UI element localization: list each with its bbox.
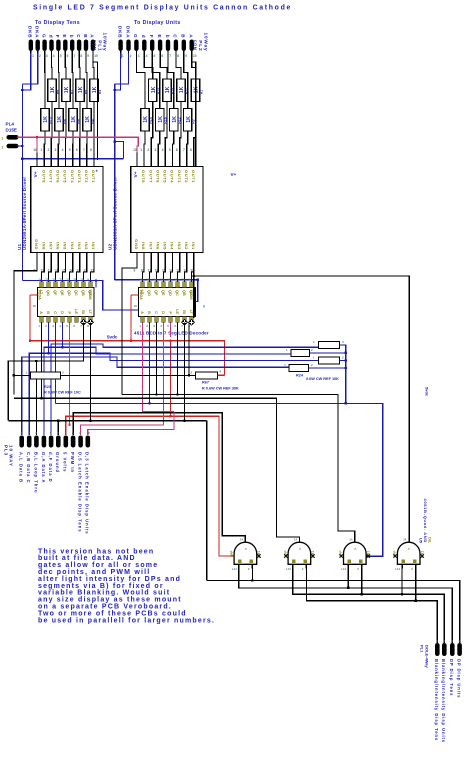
svg-text:C: C <box>76 34 81 38</box>
resistor R2 1K <box>183 109 191 132</box>
svg-text:IN7: IN7 <box>148 242 153 250</box>
wire U2 out to U4 <box>150 263 152 282</box>
svg-text:DPP: DPP <box>230 550 234 557</box>
U2 bottom pin 11 <box>193 253 195 263</box>
svg-text:QG: QG <box>46 290 50 296</box>
resistor R1 1K <box>191 79 199 102</box>
svg-text:7: 7 <box>183 148 185 152</box>
svg-text:QD: QD <box>67 290 71 296</box>
svg-text:IN5: IN5 <box>63 242 68 250</box>
svg-text:11: 11 <box>73 278 77 282</box>
wire U2 out to U4 <box>157 263 159 282</box>
svg-text:B,L Loop Thru: B,L Loop Thru <box>33 452 38 494</box>
U4 pad top 12 <box>162 282 165 288</box>
svg-text:V+: V+ <box>33 171 39 177</box>
blue bus left <box>21 84 23 281</box>
svg-text:DP Disp Tens: DP Disp Tens <box>449 659 454 696</box>
blue wire to U4 region <box>115 279 198 281</box>
U3 pad top 10 <box>47 282 50 288</box>
svg-text:OUT2: OUT2 <box>184 170 189 183</box>
svg-text:d,F Data D: d,F Data D <box>48 452 53 483</box>
svg-text:GND: GND <box>34 239 39 250</box>
svg-text:QC: QC <box>74 290 78 296</box>
pink wire U4 pin5 <box>170 322 172 337</box>
resistor R4 1K <box>83 109 91 132</box>
wire resistor to driver pin <box>186 131 189 153</box>
U1 bottom pin 18 <box>43 253 45 263</box>
black wire U3 pin8 down <box>90 322 92 420</box>
svg-text:13: 13 <box>59 278 63 282</box>
svg-text:F: F <box>55 35 60 39</box>
svg-text:R67: R67 <box>202 381 209 385</box>
U1 bottom pin 14 <box>72 253 74 263</box>
svg-text:OUT7: OUT7 <box>48 170 53 183</box>
svg-text:L14: L14 <box>232 567 237 571</box>
op-amp-driver U1 box <box>31 167 103 253</box>
blue rail y158.6 <box>22 158 123 160</box>
bus wire C y594.3 <box>293 568 445 643</box>
svg-text:15: 15 <box>45 278 49 282</box>
wire pin to resistor <box>152 59 160 109</box>
black wire M2a y394.5 to gate3 <box>122 395 355 542</box>
svg-text:7: 7 <box>83 148 85 152</box>
svg-text:B: B <box>83 34 88 38</box>
svg-text:D,3 Latch Enable Disp Units: D,3 Latch Enable Disp Units <box>85 452 90 535</box>
resistor R16 1K <box>156 109 164 132</box>
svg-text:3: 3 <box>46 54 48 58</box>
svg-text:4: 4 <box>62 148 64 152</box>
U2 top pin 10 <box>136 153 138 167</box>
pink wire PL3 pin10 <box>88 412 174 436</box>
svg-text:1: 1 <box>140 148 142 152</box>
svg-text:A: A <box>39 311 43 314</box>
U2 bottom pin 17 <box>150 253 152 263</box>
U1 bottom pin 13 <box>79 253 81 263</box>
svg-text:DKB: DKB <box>28 26 33 38</box>
svg-text:be used in parallell for large: be used in parallell for larger numbers. <box>38 617 215 624</box>
wire COM connector2 down <box>192 53 196 167</box>
AND gate U5D <box>397 542 420 564</box>
svg-text:Blanking/Intensity Disp Tens: Blanking/Intensity Disp Tens <box>434 659 439 741</box>
wire U1 out to U3 <box>63 263 66 282</box>
pink V+ rail <box>17 137 138 152</box>
wire U3 pin3 blue to M4 <box>55 322 57 403</box>
wire pin to resistor <box>86 59 87 109</box>
wire resistor to driver pin <box>79 101 81 153</box>
AND gate U5B <box>288 542 311 564</box>
U1 top pin 4 <box>64 153 66 167</box>
U1 top pin 6 <box>79 153 81 167</box>
wire U1 out to U3 <box>77 263 80 282</box>
wire DP pins connector1 to blue bus <box>22 53 30 90</box>
svg-text:A: A <box>90 34 95 38</box>
wire resistor to driver pin <box>194 101 196 153</box>
svg-text:OUT6: OUT6 <box>155 170 160 183</box>
wire U2 out to U4 <box>164 263 166 282</box>
svg-text:16: 16 <box>139 278 143 282</box>
svg-text:PL4: PL4 <box>6 122 15 127</box>
U2 top pin 1 <box>143 153 145 167</box>
svg-text:4: 4 <box>162 148 164 152</box>
svg-text:VDDB: VDDB <box>88 290 92 301</box>
svg-text:b: b <box>165 35 170 39</box>
svg-text:R1: R1 <box>199 90 203 95</box>
U1 bottom pin 16 <box>57 253 59 263</box>
wire DP pins connector2 to blue bus <box>115 53 121 90</box>
U3 pad top 14 <box>75 282 78 288</box>
U1 bottom pin 17 <box>50 253 52 263</box>
svg-text:QB: QB <box>81 290 85 296</box>
U3 pad top 11 <box>54 282 57 288</box>
U3 pad bottom 5 <box>68 317 71 323</box>
svg-text:2: 2 <box>147 148 149 152</box>
svg-text:R24: R24 <box>296 374 304 378</box>
svg-text:IN4: IN4 <box>170 242 175 250</box>
resistor R15 1K <box>163 79 171 102</box>
red vertical x170.5 <box>170 341 172 417</box>
svg-text:B: B <box>147 311 151 314</box>
U1 top pin 8 <box>93 153 95 167</box>
U1 top pin 7 <box>86 153 88 167</box>
svg-text:IN8: IN8 <box>141 242 146 250</box>
svg-text:IN2: IN2 <box>84 242 89 250</box>
svg-text:9: 9 <box>134 269 136 273</box>
resistor R5 1K <box>76 79 84 102</box>
U4 pad bottom 2 <box>148 317 151 323</box>
svg-text:PL2: PL2 <box>197 40 203 51</box>
wire resistor to driver pin <box>43 131 46 153</box>
black wire M5 y420.6 <box>8 420 206 422</box>
U3 pad bottom 6 <box>75 317 78 323</box>
svg-text:PL3: PL3 <box>4 445 9 456</box>
U1 top pin 2 <box>50 153 52 167</box>
U3 pad top 15 <box>82 282 85 288</box>
svg-text:12: 12 <box>167 278 171 282</box>
U3 no-connect marks <box>80 319 87 326</box>
resistor R19 horizontal <box>318 357 339 364</box>
wire pin to resistor <box>176 59 181 80</box>
resistor R18 horizontal <box>291 349 310 356</box>
svg-text:10Way: 10Way <box>202 32 208 51</box>
svg-text:QF: QF <box>53 290 57 296</box>
svg-text:IN4: IN4 <box>70 242 75 250</box>
wire left to R23 <box>14 374 31 376</box>
svg-text:2: 2 <box>130 54 132 58</box>
svg-text:6: 6 <box>67 54 69 58</box>
svg-text:R11: R11 <box>185 88 189 94</box>
svg-text:R3: R3 <box>98 90 102 95</box>
svg-text:R23: R23 <box>44 385 51 389</box>
svg-text:QB: QB <box>182 290 186 296</box>
wire PL4 pin2 to blue bus <box>17 145 22 147</box>
blue bus mid <box>114 84 116 280</box>
wire pin to resistor <box>71 59 74 109</box>
svg-text:IN1: IN1 <box>91 242 96 250</box>
svg-text:Single LED 7 Segment Display U: Single LED 7 Segment Display Units Canno… <box>33 5 292 12</box>
svg-text:QC: QC <box>175 290 179 296</box>
svg-text:IN6: IN6 <box>155 242 160 250</box>
wire pin to resistor <box>93 59 94 80</box>
wire U1 out to U3 <box>70 263 73 282</box>
svg-text:OUT5: OUT5 <box>163 170 168 183</box>
U2 top pin 2 <box>150 153 152 167</box>
svg-text:5vdc: 5vdc <box>107 335 118 340</box>
svg-text:OUT1: OUT1 <box>191 170 196 183</box>
svg-text:A,L Data B: A,L Data B <box>19 452 24 483</box>
svg-text:OUT2: OUT2 <box>84 170 89 183</box>
svg-text:1: 1 <box>2 137 4 141</box>
svg-text:GND: GND <box>134 239 139 250</box>
svg-text:D15E: D15E <box>6 128 18 133</box>
black wire U3 pin7 to left bus <box>8 322 83 420</box>
svg-text:10Way: 10Way <box>102 32 108 51</box>
wire resistor to driver pin <box>72 131 74 153</box>
svg-text:5 Volts: 5 Volts <box>63 452 68 472</box>
U3 pad bottom 8 <box>89 317 92 323</box>
resistor R20 horizontal <box>289 365 309 372</box>
wire resistor to driver pin <box>93 101 95 153</box>
svg-text:A: A <box>189 34 194 38</box>
black wire U4 pin6 <box>177 322 179 394</box>
svg-text:COM: COM <box>193 40 197 51</box>
U4 pad bottom 4 <box>162 317 165 323</box>
U2 top pin 7 <box>186 153 188 167</box>
svg-text:PL1: PL1 <box>96 40 102 51</box>
wire pin to resistor <box>168 59 174 109</box>
U4 pad top 15 <box>183 282 186 288</box>
blue wire M4 y403.4 to gate3 right pin <box>56 403 383 556</box>
svg-text:1: 1 <box>40 148 42 152</box>
svg-text:D: D <box>161 311 165 314</box>
U4 pad bottom 5 <box>169 317 172 323</box>
svg-text:OUT3: OUT3 <box>77 170 82 183</box>
black cathode wire right <box>194 263 409 542</box>
wire PL3 ground up <box>57 421 59 435</box>
blue data wire pin5 to R17 <box>51 344 318 435</box>
svg-text:A: A <box>140 311 144 314</box>
svg-text:B: B <box>46 311 50 314</box>
svg-text:IN5: IN5 <box>163 242 168 250</box>
svg-text:OUT6: OUT6 <box>56 170 61 183</box>
blue wire to U3 region <box>22 280 96 282</box>
wire U1 out to U3 <box>49 263 52 282</box>
svg-text:4081B-Quad. AND: 4081B-Quad. AND <box>423 498 428 543</box>
wire resistor to driver pin <box>86 131 88 153</box>
blue common vertical right of resistors <box>340 345 346 403</box>
svg-text:16: 16 <box>134 304 138 308</box>
U1 bottom pin 11 <box>93 253 95 263</box>
pink wire U4 pin1 <box>143 322 175 411</box>
wire resistor to driver pin <box>151 101 152 153</box>
svg-text:10: 10 <box>94 54 98 58</box>
decoder U4 box <box>139 288 196 317</box>
svg-text:9: 9 <box>185 54 187 58</box>
wire resistor to driver pin <box>57 131 60 153</box>
op-amp-driver U2 box <box>131 167 203 253</box>
wire pin to resistor <box>78 59 81 80</box>
svg-text:C: C <box>154 311 158 314</box>
svg-text:G: G <box>41 34 46 38</box>
svg-text:3: 3 <box>154 148 156 152</box>
U2 top pin 8 <box>193 153 195 167</box>
svg-text:G: G <box>133 34 138 38</box>
U2 bottom pin 13 <box>179 253 181 263</box>
svg-text:R 0.6W CW REF 30K: R 0.6W CW REF 30K <box>202 387 239 391</box>
red rail 5vdc <box>30 295 225 375</box>
svg-text:2: 2 <box>47 148 49 152</box>
svg-text:V+: V+ <box>231 172 237 177</box>
svg-text:Blanking/Intensity Disp Units: Blanking/Intensity Disp Units <box>441 659 446 743</box>
svg-text:7: 7 <box>169 54 171 58</box>
svg-text:OUT8: OUT8 <box>41 170 46 183</box>
svg-text:IN2: IN2 <box>184 242 189 250</box>
wire U2 gnd down <box>121 268 123 395</box>
svg-text:10: 10 <box>181 278 185 282</box>
bus wire D y600.7 <box>306 568 437 643</box>
black wire U4 pin7 <box>184 322 186 420</box>
resistor R17 horizontal <box>318 342 339 349</box>
U1 top pin 5 <box>72 153 74 167</box>
svg-text:L: L <box>285 363 287 367</box>
red wire PL3 5V to gate1 <box>66 416 235 556</box>
svg-text:BI: BI <box>81 310 85 314</box>
U4 pad top 13 <box>169 282 172 288</box>
svg-text:UDN2981A-8Perl Source Driver: UDN2981A-8Perl Source Driver <box>112 177 117 250</box>
svg-text:Ground: Ground <box>55 452 60 473</box>
wire pin to resistor <box>136 59 145 109</box>
svg-text:10: 10 <box>80 278 84 282</box>
U2 top pin 3 <box>157 153 159 167</box>
svg-text:5: 5 <box>69 148 71 152</box>
svg-text:QF: QF <box>154 290 158 296</box>
svg-text:d: d <box>48 35 53 39</box>
svg-text:IN1: IN1 <box>191 242 196 250</box>
svg-text:VDDB: VDDB <box>189 290 193 301</box>
wire U2 out to U4 <box>143 263 145 282</box>
svg-text:1: 1 <box>32 54 34 58</box>
svg-text:DKA: DKA <box>125 26 130 38</box>
U4 pad top 16 <box>190 282 193 288</box>
resistor R11 1K <box>177 79 185 102</box>
svg-text:IN8: IN8 <box>41 242 46 250</box>
bus wire A y580.5 <box>207 581 460 644</box>
svg-text:E: E <box>157 35 162 39</box>
U1 bottom pin 12 <box>86 253 88 263</box>
wire pin to resistor <box>57 59 60 109</box>
svg-text:E: E <box>62 35 67 39</box>
wire resistor to driver pin <box>64 101 67 153</box>
svg-text:5: 5 <box>169 148 171 152</box>
svg-text:10: 10 <box>193 54 197 58</box>
svg-text:8: 8 <box>80 54 82 58</box>
svg-text:8: 8 <box>203 305 205 309</box>
U4 pad top 10 <box>148 282 151 288</box>
svg-text:2: 2 <box>2 146 4 150</box>
U2 bottom pin 18 <box>143 253 145 263</box>
wire R25 right to red rail <box>218 374 225 376</box>
U3 pad bottom 2 <box>47 317 50 323</box>
U4 pad bottom 1 <box>141 317 144 323</box>
svg-text:IN6: IN6 <box>56 242 61 250</box>
svg-text:UDN2981A-8Perl Source Driver: UDN2981A-8Perl Source Driver <box>22 177 27 250</box>
svg-text:PWM In: PWM In <box>70 452 75 473</box>
svg-text:L14: L14 <box>395 567 400 571</box>
U2 bottom pin 15 <box>164 253 166 263</box>
U1 top pin 3 <box>57 153 59 167</box>
U2 bottom pin 16 <box>157 253 159 263</box>
svg-text:b: b <box>69 35 74 39</box>
svg-text:D: D <box>60 311 64 314</box>
U2 top pin 6 <box>179 153 181 167</box>
svg-text:14: 14 <box>403 538 407 542</box>
wire U2 out to U4 <box>185 263 187 282</box>
wire resistor to driver pin <box>158 131 160 153</box>
svg-text:14: 14 <box>294 538 298 542</box>
svg-text:10 WAY: 10 WAY <box>9 445 14 467</box>
svg-text:OUT5: OUT5 <box>63 170 68 183</box>
svg-text:V+: V+ <box>133 171 139 177</box>
wire pin to resistor <box>184 59 188 109</box>
black wire PL3 pin3 loop <box>35 361 37 435</box>
svg-text:F: F <box>149 35 154 39</box>
svg-text:DOLE-4Way: DOLE-4Way <box>425 645 430 669</box>
U2 top pin 5 <box>172 153 174 167</box>
svg-text:IN3: IN3 <box>77 242 82 250</box>
svg-text:IN3: IN3 <box>177 242 182 250</box>
wire gate1 right stub to busA <box>251 568 253 580</box>
svg-text:L14: L14 <box>286 567 291 571</box>
resistor R3 1K <box>90 79 98 102</box>
U3 pad top 16 <box>89 282 92 288</box>
blue data wire pin4 to R18 <box>44 347 291 435</box>
U2 bottom pin 14 <box>172 253 174 263</box>
resistor R25 horizontal <box>196 372 218 379</box>
U1 top pin 10 <box>36 153 38 167</box>
svg-text:VDDA: VDDA <box>38 290 42 301</box>
wire gate4 stubs to bus <box>401 568 403 594</box>
wire pin to resistor <box>44 59 46 109</box>
svg-text:15: 15 <box>146 278 150 282</box>
svg-text:4: 4 <box>146 54 148 58</box>
pink branch to U1 V+ <box>36 137 38 152</box>
svg-text:OUT3: OUT3 <box>177 170 182 183</box>
svg-text:4511 BCD to 7 Seg LED Decoder: 4511 BCD to 7 Seg LED Decoder <box>134 331 209 336</box>
wire pin to resistor <box>192 59 196 80</box>
resistor R23 horizontal <box>31 372 61 379</box>
black wire to bottom bus <box>206 421 208 581</box>
pink wire U4 pin4 <box>163 322 165 425</box>
svg-text:LT: LT <box>189 310 193 315</box>
U2 top pin 4 <box>164 153 166 167</box>
svg-text:16: 16 <box>38 278 42 282</box>
svg-text:5: 5 <box>154 54 156 58</box>
wire pin to resistor <box>64 59 67 80</box>
U3 pad top 12 <box>61 282 64 288</box>
svg-text:L: L <box>286 348 288 352</box>
svg-text:To Display Units: To Display Units <box>134 20 181 26</box>
wire U2 out to U4 <box>171 263 173 282</box>
wire U2 GND down-left <box>122 263 137 346</box>
bus wire B y587.9 <box>239 568 453 643</box>
svg-text:12: 12 <box>66 278 70 282</box>
U1 bottom pin 15 <box>64 253 66 263</box>
decoder U3 box <box>38 288 95 317</box>
wire resistor to driver pin <box>180 101 181 153</box>
resistor R14 1K <box>141 109 149 132</box>
wire U1 out to U3 <box>91 263 94 282</box>
black wire U4 pin8 to R25 pin <box>188 322 190 375</box>
pink wire PL3 pin9 <box>81 425 164 435</box>
